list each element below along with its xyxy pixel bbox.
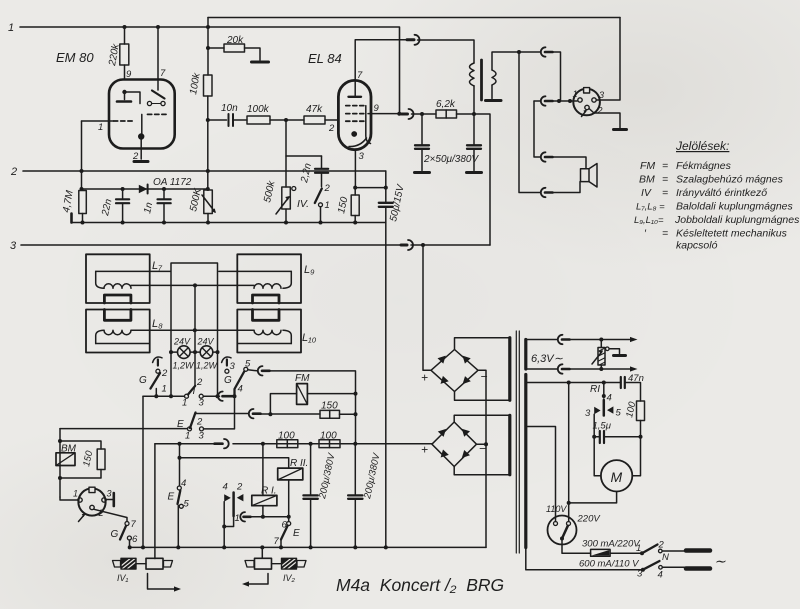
- svg-text:FM: FM: [640, 160, 655, 172]
- capacitor 22n: [122, 189, 124, 223]
- wire bridge2 ac top: [454, 415, 510, 422]
- svg-text:22n: 22n: [100, 198, 115, 218]
- svg-text:4: 4: [607, 393, 612, 404]
- EM80 grid dashes right: [148, 113, 167, 115]
- EL84 grid dashes: [346, 105, 364, 107]
- svg-text:1,2W: 1,2W: [173, 361, 196, 371]
- wire diode line y189: [82, 188, 208, 190]
- svg-text:G: G: [224, 375, 232, 386]
- EM80 deflection contacts: [147, 101, 151, 105]
- resistor 100k vertical: [204, 75, 213, 96]
- svg-text:OA 1172: OA 1172: [153, 177, 192, 188]
- resistor 100k horizontal: [247, 116, 270, 124]
- wire RI top: [262, 444, 264, 496]
- svg-text:1: 1: [182, 398, 187, 409]
- svg-text:G: G: [111, 529, 119, 540]
- coil L9 winding: [254, 284, 281, 289]
- svg-text:Jelölések:: Jelölések:: [675, 139, 729, 153]
- svg-text:200μ/380V: 200μ/380V: [317, 451, 338, 501]
- DIN2 pin3 ground: [106, 499, 113, 501]
- svg-text:3: 3: [107, 489, 112, 499]
- wire EM80 pin1 drop: [81, 121, 83, 189]
- wire OPT secondary bottom to ground: [491, 85, 493, 99]
- svg-text:=: =: [662, 160, 668, 172]
- wire DIN2 pin2 to G: [94, 509, 127, 521]
- svg-text:G: G: [139, 375, 147, 386]
- svg-text:47k: 47k: [306, 104, 323, 115]
- wire EM80 pin2: [140, 140, 142, 160]
- wire motor bottom: [569, 492, 617, 503]
- potentiometer 500k no2: [285, 120, 287, 187]
- svg-text:BM: BM: [639, 174, 655, 186]
- junction bridge2 minus: [484, 442, 488, 446]
- svg-text:2: 2: [161, 368, 168, 379]
- EM80 switch blade pin7: [152, 91, 165, 99]
- svg-text:kapcsoló: kapcsoló: [676, 240, 718, 252]
- svg-text:IV₂: IV₂: [283, 573, 296, 583]
- ground 20k: [252, 61, 269, 64]
- coil L10 winding: [254, 330, 281, 335]
- wire DIN1 pin2 ground: [589, 109, 620, 129]
- wire RII feed y457.8: [180, 458, 289, 468]
- core L7: [104, 295, 130, 303]
- svg-text:E: E: [168, 492, 175, 503]
- svg-text:50μ/15V: 50μ/15V: [388, 183, 407, 223]
- tube EL84 envelope: [338, 80, 371, 149]
- svg-text:2: 2: [328, 123, 335, 134]
- svg-text:1n: 1n: [142, 201, 155, 215]
- capacitor 2x50u no1: [421, 114, 423, 171]
- svg-text:Szalagbehúzó mágnes: Szalagbehúzó mágnes: [676, 174, 784, 186]
- transformer primary bars: [524, 340, 527, 548]
- wire mid frame: [171, 263, 218, 396]
- jack row1 speaker out: [541, 47, 546, 56]
- svg-text:1: 1: [98, 122, 103, 133]
- bridge rectifier 1: [431, 350, 478, 392]
- EM80 cathode dot: [138, 133, 144, 139]
- mechanism IV1: [113, 561, 121, 568]
- svg-text:2×50μ/380V: 2×50μ/380V: [423, 154, 479, 165]
- svg-text:′: ′: [644, 228, 647, 240]
- EL84 cathode curve: [349, 138, 367, 147]
- svg-text:3: 3: [599, 90, 604, 100]
- capacitor 2.2n: [321, 156, 323, 187]
- svg-text:L₁₀: L₁₀: [302, 332, 317, 344]
- svg-text:4: 4: [238, 384, 243, 395]
- svg-text:5: 5: [616, 408, 622, 419]
- resistor 220k: [120, 44, 129, 65]
- bridge rectifier 2: [432, 422, 477, 467]
- svg-text:2: 2: [98, 508, 104, 518]
- wire EL84 pin3: [354, 150, 356, 188]
- wire node1 rail: [20, 27, 400, 114]
- svg-text:3: 3: [10, 240, 17, 252]
- tube EM80 envelope: [109, 80, 175, 149]
- svg-text:300 mA/220V: 300 mA/220V: [582, 539, 641, 550]
- resistor 150 BM: [60, 441, 101, 449]
- wire E3 to node: [204, 396, 235, 429]
- connector DIN2: [60, 497, 78, 500]
- diode OA1172: [139, 185, 148, 193]
- svg-text:EL 84: EL 84: [308, 51, 342, 66]
- wire bridge1 minus: [478, 370, 486, 547]
- wire OPT secondary top: [492, 52, 541, 70]
- svg-text:3: 3: [585, 408, 591, 419]
- svg-text:110V: 110V: [546, 504, 567, 514]
- svg-text:∼: ∼: [714, 553, 726, 569]
- svg-text:L₉,L₁₀=: L₉,L₁₀=: [634, 215, 664, 226]
- wire row2 down to row3: [534, 101, 541, 157]
- resistor 47k: [304, 116, 325, 124]
- coil L8 block: [86, 310, 150, 353]
- svg-text:IV₁: IV₁: [117, 573, 129, 583]
- wire FM left: [270, 394, 296, 415]
- wire FM feed: [270, 371, 356, 444]
- resistor 4.7M: [79, 191, 87, 214]
- svg-text:+: +: [421, 443, 428, 457]
- wire 10n to 100k: [233, 119, 247, 121]
- wire 47k to EL84 grid: [325, 119, 339, 121]
- coil L9 block: [237, 254, 301, 303]
- wire 6.3V bottom: [526, 368, 557, 370]
- wire 110V tap: [528, 427, 556, 522]
- svg-text:150: 150: [81, 449, 95, 467]
- svg-text:1: 1: [235, 513, 240, 524]
- core L10: [253, 310, 280, 321]
- wire node3 rail: [21, 244, 400, 246]
- wire BM left drop: [59, 429, 61, 497]
- EL84 plate bar: [349, 96, 362, 98]
- svg-text:M4a Koncert /₂ BRG: M4a Koncert /₂ BRG: [336, 575, 504, 595]
- svg-text:Fékmágnes: Fékmágnes: [676, 160, 732, 172]
- svg-text:IV: IV: [641, 187, 652, 199]
- wire bridge1 ac top: [455, 338, 510, 350]
- wire RI bottom: [262, 506, 264, 517]
- transformer OPT primary: [470, 63, 475, 86]
- svg-text:6,3V∼: 6,3V∼: [531, 353, 564, 365]
- svg-text:3: 3: [230, 361, 236, 372]
- svg-text:=: =: [662, 174, 668, 186]
- jack row4 speaker bottom: [519, 52, 541, 193]
- wire top rail: [208, 17, 620, 19]
- svg-text:3: 3: [199, 431, 205, 442]
- wire bridge1 ac bottom: [455, 392, 510, 401]
- svg-text:220V: 220V: [577, 514, 602, 525]
- svg-text:100k: 100k: [247, 104, 270, 115]
- wire mains top y382.5: [526, 382, 621, 384]
- wire selector to fuse: [562, 539, 591, 554]
- svg-text:9: 9: [374, 103, 380, 114]
- jack rail 396: [218, 392, 223, 401]
- svg-text:500K: 500K: [188, 186, 204, 212]
- capacitor 200u no1: [310, 444, 312, 548]
- svg-text:1,2W: 1,2W: [196, 361, 219, 371]
- svg-text:4: 4: [223, 482, 228, 493]
- capacitor 2x50u no2: [473, 114, 475, 171]
- lamp 24V no1: [178, 346, 191, 359]
- jack rail 443.7: [215, 442, 223, 445]
- chassis line y222.5: [70, 214, 73, 223]
- svg-text:2: 2: [236, 482, 243, 493]
- jack B+ line: [402, 113, 408, 116]
- wire L7-L9 link: [131, 284, 254, 286]
- svg-text:7: 7: [160, 68, 166, 79]
- svg-text:=: =: [662, 228, 668, 240]
- DIN1 pin2 arrow: [582, 111, 587, 117]
- mains plug pin top: [686, 548, 710, 553]
- svg-text:IV.: IV.: [297, 198, 309, 210]
- coil L7 winding: [104, 284, 131, 289]
- motor M: [594, 437, 601, 476]
- svg-text:1: 1: [185, 431, 190, 442]
- junction dots node1: [123, 25, 211, 29]
- wire FM right: [307, 393, 355, 395]
- svg-text:I: I: [193, 386, 196, 397]
- core L9: [253, 295, 280, 303]
- EL84 screen lead: [366, 106, 371, 144]
- svg-text:2: 2: [10, 166, 17, 178]
- wire 6.2k right: [457, 114, 491, 245]
- switch I: [185, 394, 189, 398]
- ground rheostat: [614, 354, 626, 357]
- svg-text:24V: 24V: [197, 337, 215, 347]
- wire mains bottom rail: [526, 548, 643, 570]
- svg-text:L₈: L₈: [152, 318, 163, 330]
- wire x208 drop: [207, 18, 209, 76]
- svg-text:6: 6: [132, 534, 138, 545]
- svg-text:+: +: [421, 371, 428, 385]
- wire node2 rail: [23, 170, 386, 172]
- wire bridge2 ac bottom: [454, 467, 510, 475]
- svg-text:Késleltetett mechanikus: Késleltetett mechanikus: [676, 228, 788, 240]
- svg-text:100k: 100k: [188, 71, 203, 95]
- EM80 internal: pin9 node and screen: [157, 80, 159, 90]
- jack RI line: [244, 515, 251, 518]
- svg-text:1: 1: [162, 384, 167, 395]
- mechanism IV2: [245, 561, 254, 568]
- svg-text:2: 2: [597, 106, 603, 116]
- resistor 100 motor: [637, 401, 645, 421]
- transformer OPT core: [480, 60, 483, 100]
- wire lamp row: [171, 351, 218, 353]
- capacitor 200u no2: [354, 444, 356, 548]
- svg-text:M: M: [611, 469, 623, 485]
- wire 100k to 47k: [270, 119, 304, 121]
- coil L7 block: [86, 254, 150, 303]
- mains plug pin bottom: [686, 566, 710, 571]
- EL84 cathode dot: [351, 131, 357, 137]
- capacitor 47n: [621, 377, 625, 388]
- svg-text:4: 4: [658, 570, 663, 581]
- switch G right hook: [226, 360, 228, 366]
- svg-text:150: 150: [336, 196, 350, 215]
- svg-text:L₇,L₈ =: L₇,L₈ =: [636, 202, 665, 213]
- svg-text:200μ/380V: 200μ/380V: [362, 451, 383, 501]
- switch G left hook: [157, 360, 159, 366]
- transformer core: [516, 331, 519, 553]
- jack E2 line: [249, 409, 254, 418]
- DIN2 arrow: [79, 515, 85, 522]
- resistor 150 EL84 cathode: [354, 188, 356, 195]
- ground EM80 cathode: [134, 160, 148, 163]
- capacitor 1n: [163, 189, 165, 223]
- potentiometer 500k no1: [207, 120, 209, 190]
- wire EM80 pin1: [82, 120, 114, 122]
- svg-text:Jobboldali kuplungmágnes: Jobboldali kuplungmágnes: [674, 214, 800, 226]
- svg-text:1: 1: [8, 22, 14, 34]
- switch G left: [156, 369, 160, 373]
- wire DIN1 pin3: [596, 18, 620, 101]
- wire x195 drop: [194, 285, 196, 385]
- wire bridge1 plus: [423, 245, 431, 370]
- wire cathode to 50u cap: [355, 187, 386, 189]
- svg-text:6,2k: 6,2k: [436, 99, 456, 110]
- lamp 24V no2: [200, 346, 213, 359]
- svg-text:2: 2: [196, 417, 203, 428]
- svg-text:24V: 24V: [173, 337, 191, 347]
- jack row3 speaker top: [541, 152, 546, 161]
- wire E2 line y414: [195, 413, 248, 415]
- wire x179.5 drop: [179, 444, 181, 486]
- capacitor 50u/15V: [385, 171, 387, 223]
- wire fuse to switch: [610, 552, 642, 554]
- EM80 plate bar: [117, 100, 131, 103]
- svg-text:5: 5: [184, 499, 190, 510]
- wire screen/B+ node y114: [397, 112, 476, 116]
- transformer mains secondary bars: [508, 338, 511, 475]
- switch E 6-7: [288, 517, 290, 522]
- jack row2: [534, 100, 541, 102]
- svg-text:1: 1: [325, 200, 330, 211]
- wire EL84 pin7 anode: [355, 40, 407, 97]
- jack G5 to FM: [248, 370, 257, 371]
- bottom rail: [130, 546, 486, 548]
- svg-text:1,5μ: 1,5μ: [593, 421, 612, 432]
- core L8: [104, 310, 130, 321]
- wire signal line y120: [208, 119, 227, 121]
- wire OPT primary bottom: [473, 86, 475, 114]
- ground cap1: [415, 171, 430, 174]
- svg-text:FM: FM: [295, 373, 310, 384]
- svg-text:N: N: [662, 552, 669, 563]
- coil L10 block: [237, 310, 301, 353]
- rheostat hum balance: [600, 340, 602, 370]
- DIN1 pins: [578, 98, 582, 102]
- wire anode to OPT: [418, 40, 475, 63]
- wire jack row1 to DIN: [546, 52, 561, 101]
- connector DIN1: [573, 89, 600, 116]
- coil L8 winding: [104, 330, 131, 335]
- svg-text:3: 3: [359, 151, 365, 162]
- EM80 grid dashes left (pin1): [114, 120, 135, 122]
- svg-text:RI: RI: [590, 384, 600, 395]
- switch G right: [225, 369, 229, 373]
- wire x143 drop: [142, 396, 144, 547]
- jack anode (plug+arc): [407, 38, 414, 41]
- svg-text:10n: 10n: [221, 103, 238, 114]
- loudspeaker: [581, 169, 590, 182]
- wire common drop x385.8: [385, 223, 387, 548]
- svg-text:L₇: L₇: [152, 260, 163, 272]
- wire EM80 pin7: [157, 27, 159, 80]
- junctions rail 396: [154, 394, 236, 398]
- svg-text:2: 2: [324, 183, 331, 194]
- wire EM80 grid elbow: [141, 114, 143, 133]
- ground OPT secondary: [486, 99, 502, 102]
- svg-text:Baloldali kuplungmágnes: Baloldali kuplungmágnes: [676, 201, 793, 213]
- svg-text:L₉: L₉: [304, 264, 315, 276]
- svg-text:1: 1: [73, 489, 78, 499]
- svg-text:4,7M: 4,7M: [61, 189, 76, 213]
- svg-text:7: 7: [357, 70, 363, 81]
- wire 220V line: [568, 383, 570, 522]
- capacitor 10n: [229, 114, 234, 126]
- transformer OPT secondary: [492, 70, 496, 85]
- ground cap2: [467, 171, 482, 174]
- svg-text:7: 7: [274, 536, 280, 547]
- svg-text:3: 3: [199, 398, 205, 409]
- svg-text:1: 1: [636, 543, 641, 554]
- arrow IV1: [148, 574, 179, 590]
- wire 6.3V top: [526, 339, 557, 341]
- resistor 20k: [224, 44, 245, 52]
- svg-text:1: 1: [573, 89, 578, 99]
- svg-text:500k: 500k: [262, 179, 277, 203]
- jack node3: [401, 244, 407, 247]
- resistor 6.2k: [436, 110, 457, 118]
- svg-text:7: 7: [131, 519, 137, 530]
- ground DIN1: [614, 128, 627, 131]
- wire L8-L10 link: [131, 329, 254, 331]
- svg-text:EM 80: EM 80: [56, 50, 94, 65]
- svg-text:Irányváltó érintkező: Irányváltó érintkező: [676, 187, 767, 199]
- svg-text:2,2n: 2,2n: [299, 162, 314, 185]
- svg-text:E: E: [293, 528, 300, 539]
- wire rail y443.7: [155, 443, 214, 445]
- svg-text:2: 2: [196, 377, 203, 388]
- svg-text:=: =: [662, 187, 668, 199]
- svg-text:5: 5: [245, 359, 251, 370]
- wire pot2 branch to 2.2n: [286, 155, 322, 157]
- wire BM feed y428.6: [60, 428, 188, 430]
- arrow IV2: [245, 574, 268, 585]
- svg-text:600 mA/110 V: 600 mA/110 V: [579, 559, 640, 570]
- switch G 7-6: [125, 522, 129, 526]
- wire switch rail y396: [143, 395, 220, 397]
- legend Jelolesek: [634, 139, 800, 252]
- wire x154.9 drop: [154, 444, 156, 559]
